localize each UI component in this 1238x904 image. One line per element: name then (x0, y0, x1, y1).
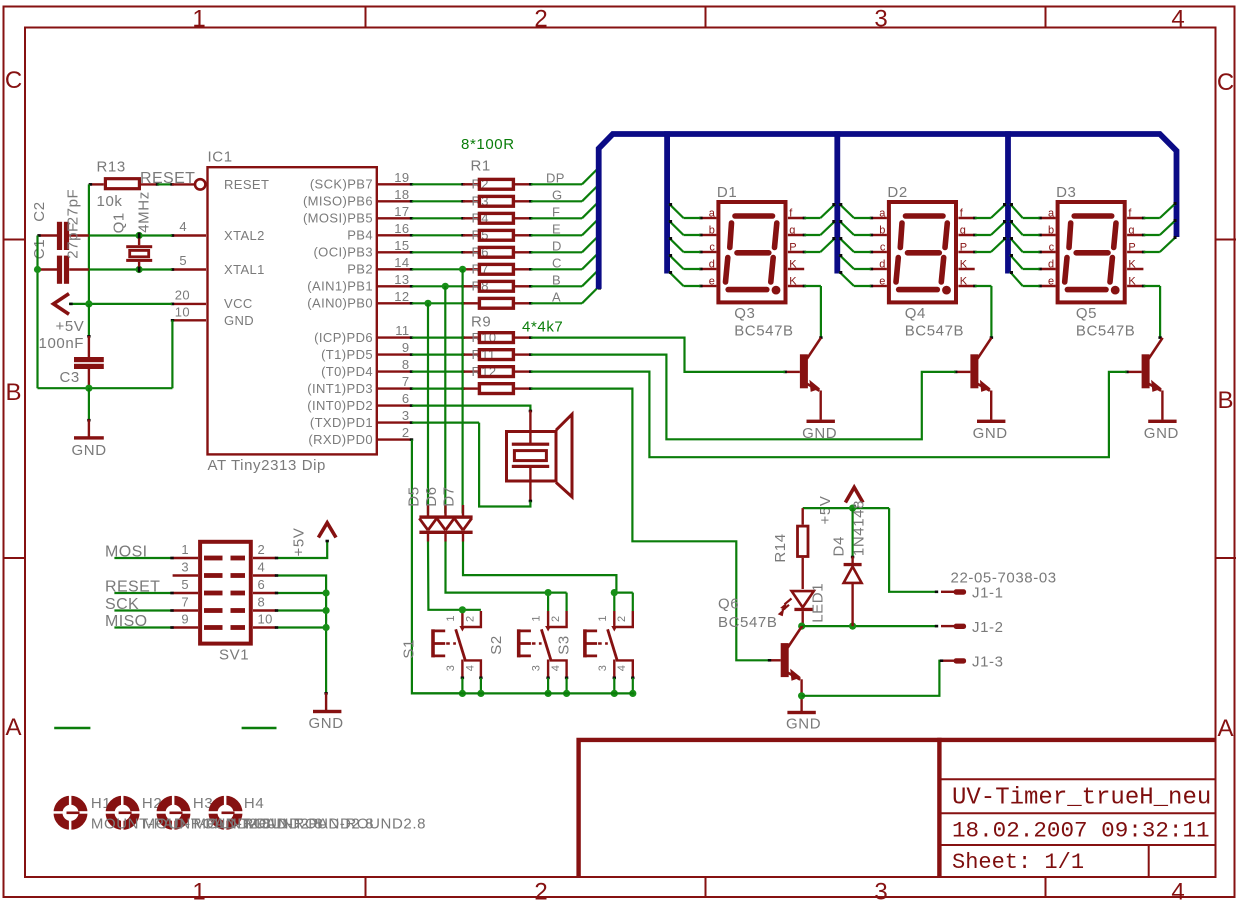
display D1 pin K cathode (788, 285, 804, 287)
IC1 pin 20 VCC lead (172, 303, 206, 305)
wire D2 pin f to bus (975, 217, 991, 219)
junction crystal bottom (136, 266, 143, 273)
svg-text:27pF: 27pF (65, 222, 82, 259)
diode D4 (851, 508, 853, 557)
svg-text:+5V: +5V (291, 528, 308, 557)
display D1 pin d (701, 268, 717, 270)
display D2 pin c (871, 251, 887, 253)
svg-text:(AIN0)PB0: (AIN0)PB0 (307, 296, 373, 311)
svg-text:17: 17 (394, 204, 409, 219)
svg-text:(T0)PD4: (T0)PD4 (321, 364, 373, 379)
wire D7 to S3 (463, 542, 616, 593)
svg-text:K: K (1128, 259, 1136, 271)
svg-text:(TXD)PD1: (TXD)PD1 (310, 415, 373, 430)
svg-text:BC547B: BC547B (734, 323, 793, 340)
bus drop 2 (834, 131, 840, 273)
ground symbol at Q5 (1148, 420, 1176, 423)
svg-text:10: 10 (175, 305, 190, 320)
svg-text:C1: C1 (31, 239, 48, 259)
display D3 pin b (1040, 234, 1056, 236)
svg-text:GND: GND (309, 715, 344, 732)
svg-text:K: K (1128, 276, 1136, 288)
svg-text:K: K (960, 259, 968, 271)
wire D1 cathode to transistor (804, 285, 821, 287)
connector pin J1-1 (941, 591, 954, 593)
IC1 pin 14 PB2 (378, 268, 412, 270)
IC1 pin 15 (OCI)PB3 (378, 251, 412, 253)
switch S1 pin 4 (464, 660, 481, 677)
svg-text:13: 13 (394, 272, 409, 287)
svg-text:B: B (5, 379, 21, 406)
wire +5V rail to C3 (88, 304, 90, 337)
svg-text:2: 2 (464, 616, 476, 622)
svg-text:c: c (1049, 242, 1055, 254)
wire SV1 pin4 chain to GND (276, 576, 326, 694)
wire SV1 pin2 to +5V (276, 542, 327, 559)
svg-text:100nF: 100nF (39, 335, 85, 352)
display D3 pin e (1040, 285, 1056, 287)
resistor R13 (105, 179, 139, 189)
svg-text:K: K (789, 276, 797, 288)
svg-text:J1-3: J1-3 (972, 653, 1004, 670)
svg-text:MOUNT-PAD-ROUND2.8: MOUNT-PAD-ROUND2.8 (246, 816, 427, 833)
svg-text:d: d (709, 259, 715, 271)
svg-text:R14: R14 (772, 533, 789, 562)
display D3 pin P (1127, 251, 1143, 253)
svg-text:4: 4 (258, 559, 266, 574)
SV1 pin 9 lead (173, 626, 198, 628)
speaker inner plates (512, 443, 549, 446)
svg-text:8: 8 (402, 357, 410, 372)
transistor Q3 (800, 354, 808, 388)
wire SV1 pin8 (276, 609, 326, 611)
wire +5V node (803, 507, 889, 509)
svg-text:S3: S3 (556, 635, 573, 655)
wire D1 pin P to bus (804, 251, 820, 253)
display D2 pin a (871, 217, 887, 219)
IC1 pin 11 (ICP)PD6 (378, 336, 412, 338)
svg-text:(RXD)PD0: (RXD)PD0 (308, 432, 373, 447)
display D3 pin c (1040, 251, 1056, 253)
resistor R9 array element 4 (412, 388, 463, 390)
display D3 pin K cathode (1127, 285, 1143, 287)
resistor R1 array element 2 (412, 200, 463, 202)
wire SV1 pin6 (276, 592, 326, 594)
svg-text:(OCI)PB3: (OCI)PB3 (313, 245, 373, 260)
junction C3 bottom (85, 385, 92, 392)
svg-text:P: P (789, 242, 796, 254)
capacitor C3 (88, 336, 90, 358)
wire D2 pin g to bus (975, 234, 991, 236)
crystal Q1 (138, 236, 140, 246)
svg-text:(MISO)PB6: (MISO)PB6 (303, 194, 373, 209)
speaker SP1 body (507, 432, 557, 482)
connector pin J1-2 (941, 625, 954, 627)
wire D2 pin a to bus (854, 217, 871, 219)
IC1 pin 7 (INT1)PD3 (378, 387, 412, 389)
switch S2 bottom connection (547, 678, 549, 694)
wire D2 pin b to bus (854, 234, 871, 236)
svg-text:a: a (879, 208, 886, 220)
wire stub bottom left 2 (242, 727, 277, 729)
switch S3 top connection (614, 591, 633, 593)
wire D5 to S1 (428, 542, 462, 610)
wire pin14 to diode D7 (462, 269, 464, 513)
switch S1 bottom connection (461, 678, 463, 694)
switch S2 pin 4 (550, 660, 567, 677)
svg-text:R9: R9 (471, 314, 491, 331)
switch S1 actuator (431, 629, 435, 657)
wire pin3 horizontal (412, 422, 479, 424)
junction Q6 emitter (798, 692, 805, 699)
svg-text:g: g (960, 225, 966, 237)
svg-text:8: 8 (258, 594, 266, 609)
svg-text:d: d (879, 259, 885, 271)
svg-text:VCC: VCC (224, 296, 253, 311)
connector pin J1-3 (941, 660, 954, 662)
svg-text:4: 4 (616, 665, 628, 671)
svg-text:27pF: 27pF (65, 189, 82, 226)
wire R10 output to Q3 base (531, 338, 785, 372)
svg-text:+5V: +5V (56, 318, 85, 335)
Q3 base lead (785, 371, 800, 373)
svg-text:a: a (709, 208, 716, 220)
supply +5V arrow at SV1 (318, 523, 336, 538)
Q5 base lead (1127, 371, 1142, 373)
display D3 digit (1065, 216, 1116, 290)
capacitor C2 (57, 222, 62, 250)
transistor Q4 (970, 354, 978, 388)
svg-text:D6: D6 (423, 486, 440, 506)
frame row ticks left (4, 239, 26, 241)
svg-text:K: K (960, 276, 968, 288)
mounting hole H4 (208, 795, 243, 830)
IC1 RESET pin bubble (195, 179, 205, 189)
frame column ticks bottom (365, 877, 367, 897)
svg-text:(ICP)PD6: (ICP)PD6 (314, 330, 373, 345)
SV1 contact row 5 (204, 625, 223, 630)
junction C1 left (34, 266, 41, 273)
SV1 pin 5 lead (173, 592, 198, 594)
wire Q6 emitter to J1-3 (802, 661, 943, 696)
wire D1 pin f to bus (804, 217, 820, 219)
svg-text:D4: D4 (830, 536, 847, 556)
wire R9 4th output to Q6 base (531, 389, 770, 661)
svg-text:a: a (1048, 208, 1055, 220)
svg-text:2: 2 (616, 616, 628, 622)
svg-text:S2: S2 (488, 635, 505, 655)
wire LED cathode to J1-2 (802, 625, 938, 627)
wire pin6 to speaker top (412, 406, 530, 412)
supply +5V arrow left (54, 294, 70, 315)
svg-text:18.02.2007 09:32:11: 18.02.2007 09:32:11 (952, 818, 1210, 844)
svg-text:XTAL2: XTAL2 (224, 228, 265, 243)
display D2 pin f (958, 217, 974, 219)
wire D3 pin c to bus (1023, 251, 1040, 253)
svg-text:(INT1)PD3: (INT1)PD3 (307, 381, 373, 396)
svg-text:7: 7 (181, 594, 189, 609)
svg-text:(MOSI)PB5: (MOSI)PB5 (303, 211, 373, 226)
svg-text:P: P (1128, 242, 1135, 254)
svg-text:IC1: IC1 (208, 149, 233, 166)
Q3 emitter lead to ground (820, 391, 822, 420)
switch S2 arm (541, 629, 550, 660)
svg-text:4: 4 (1171, 6, 1184, 33)
SV1 pin 10 lead (253, 626, 276, 628)
wire D3 pin P to bus (1144, 251, 1160, 253)
diode array anode bar (419, 515, 472, 518)
svg-text:D: D (552, 239, 562, 254)
svg-text:DP: DP (546, 171, 565, 186)
junction pin13 net (442, 283, 449, 290)
supply +5V arrow at R14 (845, 487, 863, 502)
IC1 pin 8 (T0)PD4 (378, 370, 412, 372)
wire D1 pin c to bus (684, 251, 701, 253)
Q5 emitter lead to ground (1161, 391, 1163, 420)
transistor Q5 (1142, 354, 1150, 388)
svg-text:LED1: LED1 (810, 583, 827, 623)
IC1 pin 17 (MOSI)PB5 (378, 217, 412, 219)
svg-text:A: A (552, 290, 561, 305)
SV1 contact row 4 (204, 608, 223, 613)
svg-text:UV-Timer_trueH_neu: UV-Timer_trueH_neu (952, 785, 1211, 812)
svg-text:6: 6 (258, 577, 266, 592)
svg-text:1N4148: 1N4148 (850, 500, 867, 556)
wire pin13 to diode D6 (444, 286, 446, 513)
svg-text:b: b (709, 225, 715, 237)
switch S1 pin 3 (461, 660, 463, 678)
IC1 pin 12 (AIN0)PB0 (378, 302, 412, 304)
svg-text:Q1: Q1 (111, 212, 128, 233)
svg-text:3: 3 (597, 665, 609, 671)
svg-text:GND: GND (973, 425, 1008, 442)
svg-text:e: e (709, 276, 715, 288)
switch S3 pin 1 (613, 611, 615, 627)
svg-text:19: 19 (394, 170, 409, 185)
svg-text:1: 1 (192, 879, 205, 904)
svg-text:10: 10 (258, 611, 273, 626)
diode D5 (427, 505, 429, 516)
svg-text:2: 2 (402, 425, 410, 440)
switch S3 pin 3 (613, 660, 615, 678)
bus drop 1 (664, 131, 670, 273)
svg-text:(T1)PD5: (T1)PD5 (321, 347, 373, 362)
wire D6 to S2 (446, 542, 549, 593)
svg-text:d: d (1048, 259, 1054, 271)
frame column ticks top (365, 7, 367, 28)
IC1 pin 16 PB4 (378, 234, 412, 236)
svg-text:1: 1 (181, 542, 189, 557)
display D2 pin g (958, 234, 974, 236)
svg-text:(SCK)PB7: (SCK)PB7 (310, 177, 373, 192)
display D3 decimal point (1111, 286, 1120, 295)
wire pin12 to diode D5 (427, 303, 429, 513)
svg-text:GND: GND (1144, 425, 1179, 442)
svg-text:+5V: +5V (817, 496, 834, 525)
IC1 pin 13 (AIN1)PB1 (378, 285, 412, 287)
resistor R9 array element 2 (412, 354, 463, 356)
svg-text:4: 4 (179, 219, 187, 234)
svg-text:BC547B: BC547B (1076, 323, 1135, 340)
switch S1 arm (456, 629, 465, 660)
IC1 pin 19 (SCK)PB7 (378, 183, 412, 185)
display D3 pin K stub (1127, 268, 1143, 270)
switch S1 pin 1 (461, 611, 463, 627)
display D2 body (889, 202, 956, 302)
IC1 pin 6 (INT0)PD2 (378, 404, 412, 406)
svg-text:3: 3 (874, 879, 887, 904)
ground symbol GND left (88, 420, 90, 438)
svg-text:g: g (789, 225, 795, 237)
svg-text:e: e (879, 276, 885, 288)
SV1 contact row 1 (204, 556, 223, 561)
junction LED cathode (798, 623, 805, 630)
svg-text:C3: C3 (60, 369, 80, 386)
svg-text:PB4: PB4 (347, 228, 373, 243)
junction pin12 net (424, 300, 431, 307)
speaker top lead (529, 411, 531, 444)
display D1 pin c (701, 251, 717, 253)
svg-text:22-05-7038-03: 22-05-7038-03 (951, 570, 1057, 587)
display D1 pin g (788, 234, 804, 236)
svg-text:2: 2 (550, 616, 562, 622)
wire D3 pin e to bus (1023, 285, 1040, 287)
wire D3 pin b to bus (1023, 234, 1040, 236)
wire C2-C1 left vertical to ground rail (36, 236, 38, 389)
svg-text:R13: R13 (97, 159, 126, 176)
resistor R1 array element 5 (412, 251, 463, 253)
SV1 pin 2 lead (253, 557, 276, 559)
svg-text:F: F (552, 205, 560, 220)
wire stub bottom left 1 (54, 727, 90, 729)
wire D2 pin e to bus (854, 285, 871, 287)
mounting hole H2 (105, 795, 140, 830)
switch S2 pin 3 (547, 660, 549, 678)
svg-text:GND: GND (786, 716, 821, 733)
ground symbol at Q6 (787, 711, 815, 714)
svg-text:SV1: SV1 (219, 647, 249, 664)
display D3 pin d (1040, 268, 1056, 270)
junction VCC rail (85, 300, 92, 307)
svg-text:8*100R: 8*100R (461, 136, 515, 153)
title block row lines (940, 778, 1216, 780)
svg-text:3: 3 (181, 559, 189, 574)
svg-text:3: 3 (402, 408, 410, 423)
wire +5V to VCC (69, 303, 172, 305)
svg-text:9: 9 (402, 340, 410, 355)
Q6 emitter lead (800, 679, 802, 711)
svg-text:6: 6 (402, 391, 410, 406)
svg-text:H4: H4 (244, 795, 264, 812)
wire D3 pin a to bus (1023, 217, 1040, 219)
wire +5V to J1-1 (889, 508, 937, 592)
resistor R14 (802, 508, 804, 525)
svg-text:XTAL1: XTAL1 (224, 262, 265, 277)
frame row ticks right (1216, 239, 1237, 241)
svg-text:1: 1 (597, 615, 609, 621)
display D3 pin f (1127, 217, 1143, 219)
SV1 contact row 2 (204, 573, 223, 578)
svg-text:C: C (552, 256, 562, 271)
wire pin2 down-left to switch common rail (412, 440, 463, 694)
resistor R1 array element 1 (412, 183, 463, 185)
wire D1 pin d to bus (684, 268, 701, 270)
junction crystal top (136, 232, 143, 239)
display D1 pin K stub (788, 268, 804, 270)
wire R12 output to Q5 base (531, 372, 1127, 458)
junction D4 bottom (849, 623, 856, 630)
svg-text:D2: D2 (887, 184, 907, 201)
SV1 pin 6 lead (253, 592, 276, 594)
svg-text:Q3: Q3 (734, 305, 755, 322)
wire pin10 down to ground rail (171, 320, 173, 388)
pin header SV1 body (200, 542, 251, 644)
SV1 pin 1 lead (173, 557, 198, 559)
mounting hole H1 (53, 795, 88, 830)
switch S1 top connection (462, 609, 481, 611)
svg-text:Q6: Q6 (718, 596, 739, 613)
resistor R1 array element 3 (412, 217, 463, 219)
wire RESET at SV1 (114, 592, 172, 594)
svg-text:PB2: PB2 (347, 262, 373, 277)
wire speaker bottom to pin3 (479, 423, 530, 507)
switch S3 pin 2 (616, 611, 633, 627)
switch S3 actuator (583, 629, 587, 657)
svg-text:G: G (552, 188, 563, 203)
display D1 digit (726, 216, 777, 290)
svg-text:AT Tiny2313 Dip: AT Tiny2313 Dip (208, 457, 327, 474)
display D2 digit (896, 216, 947, 290)
svg-text:C2: C2 (31, 201, 48, 221)
svg-text:D5: D5 (406, 486, 423, 506)
diode D7 (462, 505, 464, 516)
Q4 base lead (956, 371, 971, 373)
wire D2 pin d to bus (854, 268, 871, 270)
switch S2 pin 2 (550, 611, 567, 627)
switch S3 arm (608, 629, 617, 660)
svg-text:2: 2 (534, 879, 547, 904)
svg-text:E: E (552, 222, 561, 237)
svg-text:10k: 10k (97, 193, 123, 210)
svg-text:R1: R1 (471, 158, 491, 175)
bus main (599, 134, 1177, 289)
wire XTAL2 net (89, 234, 172, 236)
svg-text:3: 3 (531, 665, 543, 671)
resistor R9 array element 1 (412, 337, 463, 339)
display D1 pin a (701, 217, 717, 219)
svg-text:5: 5 (181, 577, 189, 592)
display D1 pin e (701, 285, 717, 287)
svg-text:A: A (5, 714, 21, 741)
svg-text:14: 14 (394, 255, 409, 270)
wire D3 pin g to bus (1144, 234, 1160, 236)
display D1 pin P (788, 251, 804, 253)
wire MOSI (114, 557, 172, 559)
display D2 pin d (871, 268, 887, 270)
svg-text:(INT0)PD2: (INT0)PD2 (307, 398, 373, 413)
wire SCK (114, 609, 172, 611)
svg-text:B: B (552, 273, 561, 288)
svg-text:4: 4 (1171, 879, 1184, 904)
switch S3 pin 4 (616, 660, 633, 677)
switch S1 pin 2 (464, 611, 481, 627)
svg-text:C: C (5, 67, 22, 94)
wire XTAL1 net (89, 268, 172, 270)
Q4 emitter lead to ground (990, 391, 992, 420)
wire R13 left to +5V rail vertical (88, 184, 90, 304)
diode D6 (444, 505, 446, 516)
switch common rail (412, 692, 634, 694)
